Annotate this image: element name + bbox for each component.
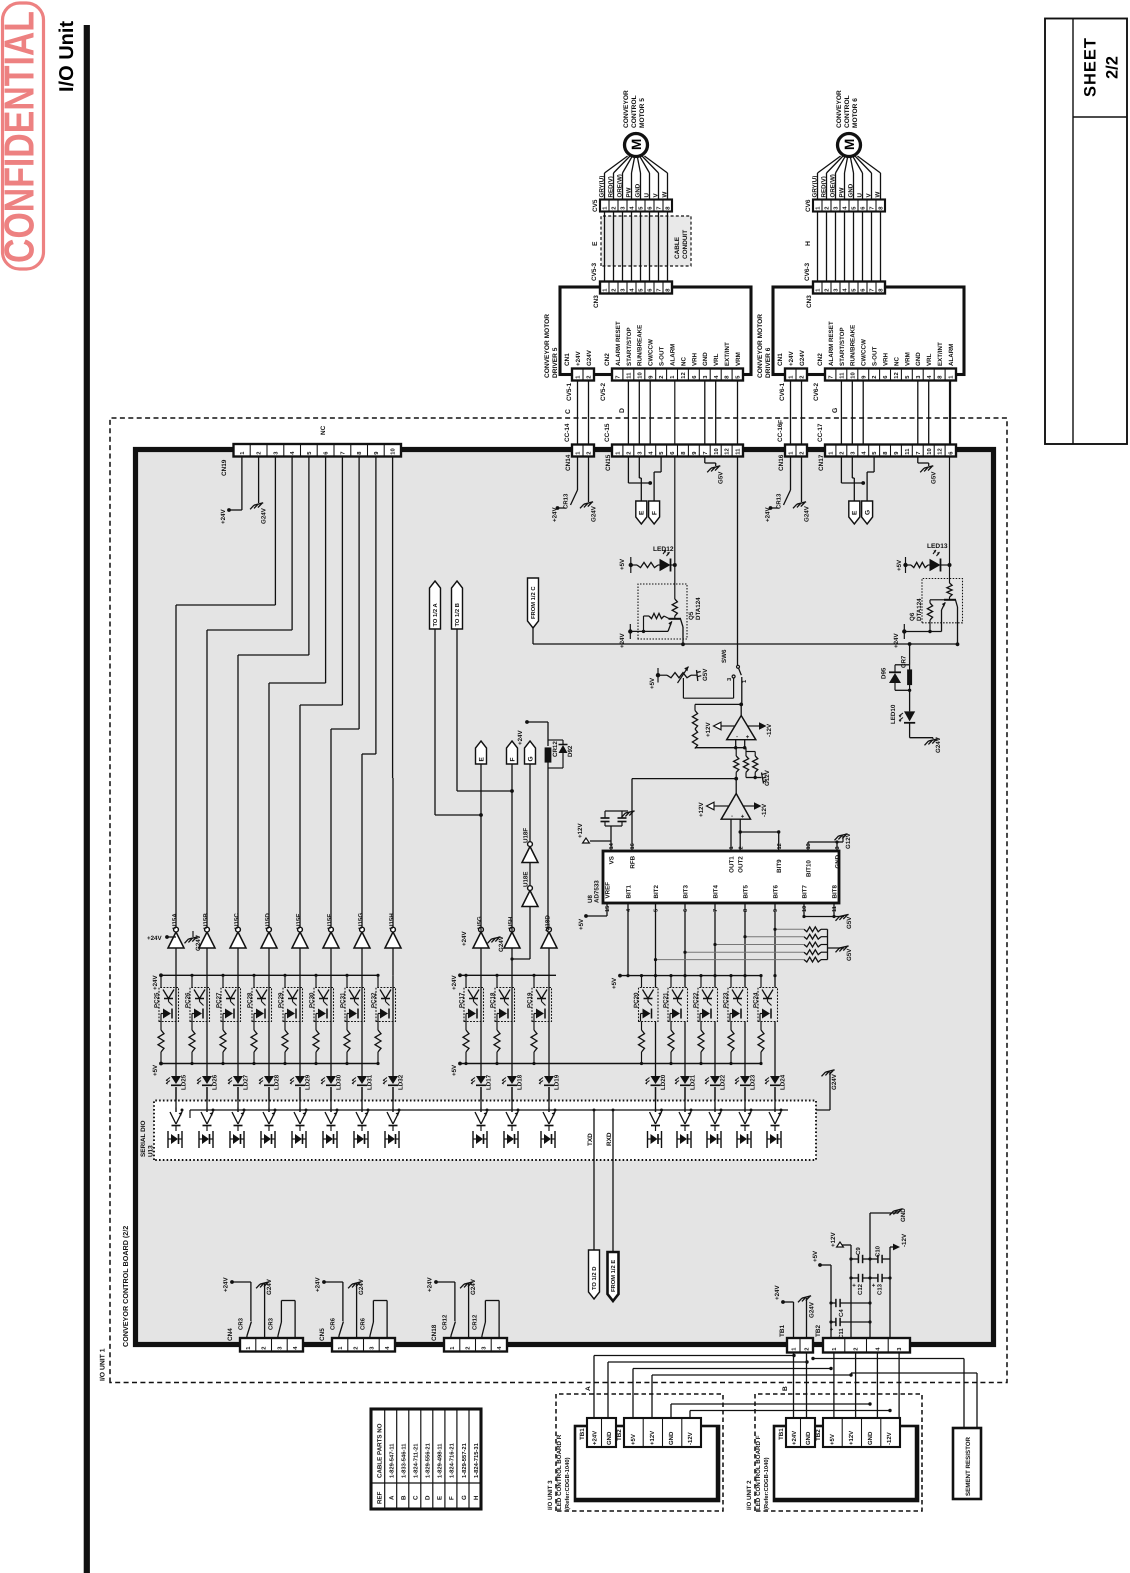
svg-text:MOTOR 5: MOTOR 5 [639,98,646,128]
svg-text:F: F [778,420,785,424]
svg-text:C13: C13 [877,1283,884,1295]
terminal TB1 of board F [786,1418,815,1447]
LED LD22 [714,1022,716,1077]
svg-text:GND: GND [668,1431,675,1445]
svg-text:+24V: +24V [893,633,900,648]
power rail +5V under U8 [620,975,762,977]
resistor at Q6 base [949,565,951,583]
svg-text:PC26: PC26 [185,992,192,1008]
svg-text:7: 7 [829,375,835,378]
svg-text:LD22: LD22 [720,1074,727,1090]
ground G5V [704,457,706,464]
diode CR12 [545,748,551,762]
svg-text:+24V: +24V [220,509,227,524]
svg-text:M: M [842,139,857,150]
power +5V at LED12 [629,563,633,567]
svg-text:2: 2 [586,375,593,378]
svg-text:PC20: PC20 [633,992,640,1008]
I/O UNIT 1 dashed boundary [110,418,1007,1383]
svg-text:+5V: +5V [812,1250,819,1262]
transistor Q5 [669,618,682,620]
svg-text:2: 2 [256,451,263,454]
resistor at PC31 [346,1022,348,1031]
svg-text:RFB: RFB [629,855,636,868]
svg-text:CV6-2: CV6-2 [813,382,820,401]
svg-text:G: G [527,756,534,761]
svg-text:U15H: U15H [389,913,396,929]
svg-text:+5V: +5V [649,677,656,689]
svg-text:1-824-716-21: 1-824-716-21 [449,1442,456,1478]
contact CR13 with +24V [577,457,579,491]
svg-text:-12V: -12V [886,1432,893,1445]
svg-text:+24V: +24V [592,1431,599,1445]
transistor cell LD28 in U13 [268,1108,270,1113]
svg-text:11: 11 [905,448,911,455]
svg-text:3: 3 [835,846,841,849]
svg-text:12: 12 [724,448,731,454]
diode D95 and CR7 pair [908,642,912,646]
svg-text:G5V: G5V [846,916,853,929]
power -12V at TB2 [890,1246,893,1248]
svg-text:SEMENT RESISTOR: SEMENT RESISTOR [965,1436,972,1496]
svg-text:TO 1/2 B: TO 1/2 B [454,603,461,626]
svg-text:B: B [401,1495,408,1500]
motor cable wires driver 6 [817,212,819,282]
svg-text:CN2: CN2 [817,353,824,366]
svg-text:PC17: PC17 [459,992,466,1008]
LED control board R dashed box [556,1394,723,1511]
svg-text:U15A: U15A [172,913,179,929]
resistor at LED13 [906,564,912,566]
svg-text:VRM: VRM [904,352,911,366]
svg-text:G24V: G24V [498,935,505,952]
power +5V at LED13 [903,563,907,567]
svg-text:+24V: +24V [461,931,468,946]
svg-text:G24V: G24V [809,1301,816,1318]
opto-coupler PC26 [191,975,193,987]
flag TO 1/2 D [589,1250,600,1299]
wires BIT10 GND bridge [807,842,809,851]
svg-text:U15G: U15G [358,913,365,929]
ground G24V at TB1 [806,1298,808,1338]
svg-text:LD21: LD21 [690,1074,697,1090]
svg-text:CC-15: CC-15 [604,423,611,442]
svg-text:LED12: LED12 [653,546,674,553]
CN19 staircase wires [274,457,276,606]
resistor at PC27 [222,1022,224,1031]
svg-text:12: 12 [680,372,687,378]
svg-text:+24V: +24V [315,1277,322,1292]
ground G24V at CN4 [260,1282,269,1284]
svg-text:+5V: +5V [896,559,903,571]
svg-text:E: E [437,1496,444,1500]
svg-text:F: F [652,511,659,515]
svg-text:-12V: -12V [901,1233,908,1247]
svg-text:DTA124: DTA124 [916,598,923,621]
svg-text:G24V: G24V [831,1073,838,1090]
opto-coupler PC28 [253,975,255,987]
svg-text:2: 2 [824,288,831,291]
svg-text:F: F [449,1496,456,1500]
contact CR13 with +24V [790,457,792,491]
capacitor pair at VS [601,821,610,823]
svg-text:LD26: LD26 [212,1074,219,1090]
svg-text:10: 10 [636,372,643,378]
svg-text:CONVEYOR: CONVEYOR [623,90,630,128]
svg-text:G5V: G5V [931,471,938,484]
svg-text:CN17: CN17 [818,454,825,471]
LED LD30 [330,1022,332,1077]
svg-text:+24V: +24V [552,507,559,522]
inverter U15D [261,932,277,948]
LED LD19 [548,1022,550,1077]
svg-text:CN14: CN14 [565,454,572,471]
resistor at PC30 [315,1022,317,1031]
svg-text:+12V: +12V [698,802,705,817]
svg-text:TB2: TB2 [616,1429,623,1441]
svg-text:2: 2 [586,451,593,454]
LED LD17 [480,1022,482,1077]
wires to segment resistor [963,1359,965,1429]
LED LD27 [237,1022,239,1077]
svg-text:G24V: G24V [804,505,811,522]
svg-text:CR3: CR3 [237,1317,244,1330]
LED control board R outline [575,1426,719,1501]
svg-text:2: 2 [465,1346,472,1349]
transistor Q5 DTA124 box [638,584,687,639]
inverter U15A [168,932,184,948]
wire CR12 to U18D [547,775,549,929]
svg-text:5: 5 [654,909,660,912]
svg-text:9: 9 [773,909,779,912]
ground G5V at resistor network [828,947,845,949]
svg-text:11: 11 [840,372,846,379]
svg-text:C11: C11 [838,1328,845,1339]
svg-text:BIT7: BIT7 [801,885,808,899]
svg-text:CC-17: CC-17 [817,423,824,442]
transistor cell LD32 in U13 [392,1108,394,1113]
svg-text:CN5: CN5 [319,1328,326,1341]
svg-text:+24V: +24V [223,1277,230,1292]
svg-text:EXT/INT: EXT/INT [724,342,731,366]
LED control board F dashed box [755,1394,922,1511]
power corner verticals [830,1265,832,1338]
svg-text:2: 2 [658,375,665,378]
svg-text:GND: GND [900,1208,907,1222]
connector CN1 of driver 6 [785,369,807,381]
svg-text:GND: GND [606,1431,613,1445]
resistor at PC19 [533,1022,535,1031]
svg-text:Q6: Q6 [909,612,916,621]
svg-text:E: E [592,241,599,246]
svg-text:G: G [461,1495,468,1500]
svg-text:RUN/BREAKE: RUN/BREAKE [637,325,644,366]
svg-text:U5G: U5G [477,916,484,929]
svg-text:CN3: CN3 [593,295,600,308]
svg-text:SERIAL DIO: SERIAL DIO [140,1121,147,1157]
svg-text:CR6: CR6 [359,1317,366,1330]
capacitor C4 [831,1302,836,1304]
transistor cell LD21 in U13 [684,1108,686,1113]
svg-text:DRIVER 6: DRIVER 6 [765,347,772,378]
svg-text:2: 2 [824,206,831,209]
connector CN3 of driver 6 [813,282,885,294]
svg-text:CR7: CR7 [901,655,908,668]
resistor at LED12 [631,564,637,566]
svg-text:EXT/INT: EXT/INT [937,342,944,366]
svg-text:TB1: TB1 [778,1428,785,1440]
svg-text:G24V: G24V [591,505,598,522]
svg-text:10: 10 [713,448,720,454]
svg-text:I/O UNIT 3: I/O UNIT 3 [547,1480,554,1510]
svg-text:CV5-3: CV5-3 [591,262,598,281]
svg-text:NC: NC [680,357,687,366]
opto-coupler PC23 [730,976,732,988]
svg-text:14: 14 [609,842,615,849]
svg-text:BIT9: BIT9 [776,859,783,873]
svg-text:VRH: VRH [691,352,698,366]
svg-text:6: 6 [683,909,689,912]
inverter U18E [522,891,538,907]
op-amp U1 first stage [741,686,743,704]
svg-text:CN18: CN18 [431,1324,438,1341]
svg-text:7: 7 [657,288,663,291]
svg-text:CN2: CN2 [604,353,611,366]
svg-text:(Refer:CDGB-1040): (Refer:CDGB-1040) [564,1457,571,1510]
ground G24V at CN5 [352,1282,361,1284]
svg-text:I/O UNIT 1: I/O UNIT 1 [100,1348,107,1381]
svg-text:D92: D92 [567,745,574,757]
svg-text:10: 10 [802,906,808,912]
svg-text:CV5: CV5 [592,199,599,212]
svg-text:VRM: VRM [735,352,742,366]
flag G [873,457,875,473]
power rail +24V [161,974,378,976]
opto-coupler PC30 [315,975,317,987]
svg-text:CONDUIT: CONDUIT [682,230,689,259]
svg-text:PC18: PC18 [490,992,497,1008]
resistor at PC17 [465,1022,467,1031]
svg-text:+5V: +5V [578,918,585,930]
connector CC-14 [572,445,594,457]
svg-text:CN19: CN19 [221,459,228,476]
svg-text:ALARM RESET: ALARM RESET [615,321,622,366]
connector CV6 [813,200,885,212]
svg-text:.: . [733,736,740,738]
svg-text:VS: VS [608,856,615,864]
svg-text:LED10: LED10 [890,704,897,724]
svg-text:+: + [830,1327,836,1331]
svg-text:8: 8 [743,909,749,912]
svg-text:NC: NC [893,357,900,366]
contact CR3 bridge pins 3-4 [278,1322,282,1336]
transistor cell LD26 in U13 [206,1108,208,1113]
ground G5V [917,457,919,464]
svg-text:12: 12 [893,372,900,378]
svg-text:+24V: +24V [774,1285,781,1300]
svg-text:-12V: -12V [687,1432,694,1445]
transistor cell LD19 in U13 [548,1108,550,1113]
LED LD28 [268,1022,270,1077]
inverter U5H [504,932,520,948]
svg-text:TO 1/2 A: TO 1/2 A [432,602,439,626]
svg-text:7: 7 [703,451,709,454]
svg-text:CR12: CR12 [471,1314,478,1330]
svg-text:TB2: TB2 [815,1324,822,1337]
opto-coupler PC17 [465,975,467,987]
svg-text:G5V: G5V [702,668,709,681]
svg-text:OUT2: OUT2 [738,856,745,873]
svg-text:BIT4: BIT4 [712,885,719,899]
svg-text:LD19: LD19 [554,1074,561,1090]
transistor cell LD24 in U13 [774,1108,776,1113]
transistor cell LD29 in U13 [299,1108,301,1113]
power +5V at TB2 [820,1264,831,1266]
svg-text:2: 2 [261,1346,268,1349]
svg-text:2: 2 [799,375,806,378]
wires CN1 to CC-16 [790,381,792,445]
svg-text:G24V: G24V [586,349,593,366]
svg-text:+5V: +5V [829,1434,836,1445]
svg-text:PC31: PC31 [340,992,347,1008]
svg-text:VRL: VRL [713,353,720,366]
power +24V at Q5 [628,629,632,633]
svg-text:ALARM: ALARM [669,344,676,366]
svg-text:LD29: LD29 [305,1074,312,1090]
resistor at PC26 [191,1022,193,1031]
wires CN1 to CC-14 [577,381,579,445]
transistor cell LD30 in U13 [330,1108,332,1113]
diode D92 [548,739,563,741]
svg-text:BIT10: BIT10 [805,860,812,877]
wire GND pin to G12V [837,841,843,843]
svg-text:2/2: 2/2 [1104,56,1122,79]
svg-text:AD7533: AD7533 [594,880,601,903]
inverter U15H [385,932,401,948]
svg-text:U5H: U5H [508,916,515,929]
contact CR6 with +24V [322,1280,326,1284]
svg-text:2: 2 [738,846,744,849]
conveyor motor driver 5 box [560,287,751,375]
svg-text:1-829-557-21: 1-829-557-21 [461,1442,468,1478]
serial DIO internal bus [190,1109,788,1111]
resistor at PC18 [496,1022,498,1031]
svg-text:CN3: CN3 [806,295,813,308]
motor M5 circle [605,156,628,173]
svg-text:LD27: LD27 [243,1074,250,1090]
svg-text:OUT1: OUT1 [728,856,735,873]
resistor at PC29 [284,1022,286,1031]
cable conduit [601,216,691,266]
svg-text:SHEET: SHEET [1082,37,1100,97]
TXD signal wire [593,1110,595,1250]
svg-text:BIT6: BIT6 [772,885,779,899]
wires OUT1 OUT2 to op-amp U2 [730,819,732,851]
flag E [851,457,853,479]
ground G24V under LED10 [910,737,933,739]
wire CC-15 pin6 to LED12 [674,381,676,445]
svg-text:+5V: +5V [630,1434,637,1445]
svg-text:LD30: LD30 [336,1074,343,1090]
connector CN19 [234,444,402,457]
svg-text:C4: C4 [838,1309,845,1317]
svg-text:GND: GND [915,352,922,366]
connector CN5 [332,1338,395,1352]
motor M6 circle [818,156,841,173]
contact CR6 bridge pins 3-4 [370,1322,374,1336]
svg-text:7: 7 [657,206,663,209]
opto-coupler PC22 [700,976,702,988]
svg-text:G5V: G5V [718,471,725,484]
LED LD18 [511,1022,513,1077]
flag F at U5H [507,741,518,764]
svg-text:+: + [741,814,747,818]
terminal block TB2 [823,1338,910,1353]
svg-text:CONFIDENTIAL: CONFIDENTIAL [0,11,43,263]
flag F [660,457,662,473]
svg-text:MOTOR 6: MOTOR 6 [852,98,859,128]
power +5V at VREF [606,903,608,916]
svg-text:DRIVER 5: DRIVER 5 [552,347,559,378]
wire to G24V from LD24 row [774,1109,830,1111]
svg-text:CV5-2: CV5-2 [600,382,607,401]
svg-text:G24V: G24V [470,1278,477,1295]
inverter U15B [199,932,215,948]
svg-text:LD18: LD18 [517,1074,524,1090]
transistor cell LD27 in U13 [237,1108,239,1113]
svg-text:+: + [746,735,752,739]
transistor cell LD20 in U13 [655,1108,657,1113]
svg-text:I/O Unit: I/O Unit [56,21,78,92]
svg-text:CONVEYOR MOTOR: CONVEYOR MOTOR [757,314,764,378]
wires CN2 to CC-17 [840,381,842,445]
svg-text:CABLE PARTS NO: CABLE PARTS NO [377,1423,384,1478]
svg-text:PC32: PC32 [371,992,378,1008]
svg-text:+12V: +12V [649,1431,656,1445]
opto-coupler PC27 [222,975,224,987]
svg-text:CN4: CN4 [227,1328,234,1341]
svg-text:M: M [629,139,644,150]
svg-text:LED CONTROL BOARD F: LED CONTROL BOARD F [755,1435,762,1510]
svg-text:CW/CCW: CW/CCW [648,339,655,366]
svg-text:+24V: +24V [451,975,458,990]
svg-text:PC28: PC28 [247,992,254,1008]
terminal TB1 of board R [587,1418,616,1447]
svg-text:7: 7 [341,451,347,454]
inverter U18F [522,847,538,863]
terminal TB2 of board R [624,1418,701,1447]
capacitor C11 [831,1321,836,1323]
opto-coupler PC18 [496,975,498,987]
wires BIT7 BIT8 to G5V [803,903,805,917]
title block [1045,19,1127,445]
wires TB to LED boards verticals [793,1353,795,1420]
connector CV5 [600,200,672,212]
svg-text:NC: NC [320,425,327,435]
op-amp U2 second stage [721,794,750,820]
LED LED10 [909,690,911,711]
LED LD32 [392,1022,394,1077]
svg-text:LD32: LD32 [398,1074,405,1090]
svg-text:G12V: G12V [764,769,771,786]
svg-text:BIT1: BIT1 [625,885,632,899]
wire jog [627,457,629,484]
LED LD26 [206,1022,208,1077]
svg-text:2: 2 [839,451,846,454]
page border line [84,25,90,1573]
svg-text:VRL: VRL [926,353,933,366]
conveyor control board outline [136,450,994,1345]
